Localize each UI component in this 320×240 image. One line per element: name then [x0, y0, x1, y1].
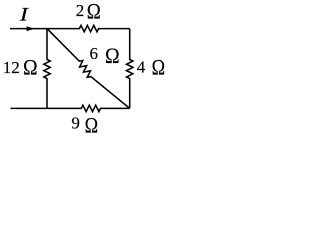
svg-text:I: I: [19, 3, 30, 25]
svg-text:Ω: Ω: [105, 43, 120, 68]
svg-text:Ω: Ω: [87, 0, 101, 24]
svg-text:Ω: Ω: [152, 56, 165, 80]
svg-text:4: 4: [137, 58, 146, 77]
svg-text:9: 9: [71, 113, 80, 132]
svg-text:Ω: Ω: [23, 55, 38, 80]
svg-text:12: 12: [3, 58, 20, 77]
svg-text:6: 6: [90, 44, 99, 63]
svg-text:2: 2: [76, 1, 85, 20]
svg-text:Ω: Ω: [85, 114, 98, 138]
